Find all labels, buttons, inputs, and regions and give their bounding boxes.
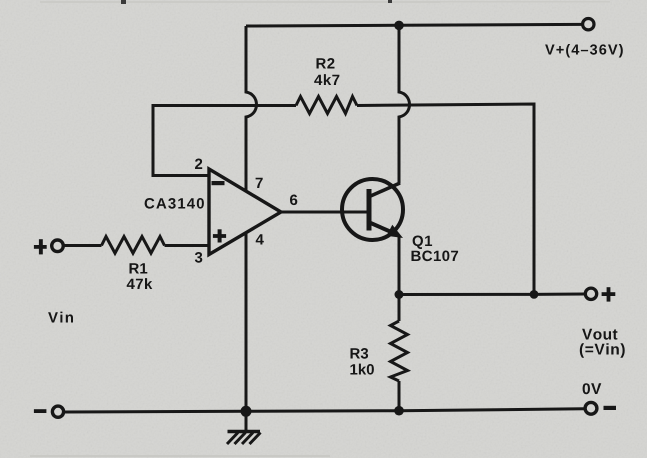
wire R3 down to 0V rail (398, 381, 401, 411)
junction dot R3 / 0V rail (394, 406, 404, 416)
junction dot emitter / output / R3 (395, 290, 404, 299)
scan artifact faint top streak (40, 1, 440, 3)
terminal 0V left (52, 406, 63, 417)
pin 6 label (290, 195, 297, 206)
scan artifact tick top left (121, 0, 126, 4)
wire output node down to R3 (398, 295, 401, 322)
wire emitter down to output node (398, 236, 401, 295)
terminal Vout (585, 288, 596, 299)
wire input terminal to R1 (65, 244, 102, 247)
junction dot ground node (241, 406, 252, 417)
label R2 (317, 58, 335, 69)
Vout terminal plus symbol (602, 287, 616, 301)
transistor Q1 circle (342, 179, 403, 240)
wire output node to Vout terminal (399, 293, 585, 297)
terminal V+ (583, 19, 594, 30)
label Vin (48, 312, 73, 323)
wire collector riser (hops over feedback wire) (399, 25, 410, 183)
pin 7 label (256, 178, 263, 188)
wire op-amp output pin 6 to base of Q1 (281, 211, 367, 214)
transistor Q1 collector stroke (370, 183, 401, 197)
label BC107 (412, 251, 459, 262)
label R1 (130, 263, 148, 273)
wire R2 right to output node (357, 104, 534, 294)
wire op-amp pin 4 down to 0V rail (245, 233, 248, 412)
label R3 (351, 348, 369, 359)
scan artifact tick top middle (388, 0, 392, 3)
label V+(4-36V) (545, 44, 623, 58)
op-amp non-inverting input plus symbol (213, 229, 226, 242)
op-amp U1 CA3140 triangle (209, 169, 281, 255)
wire top V+ rail (246, 24, 582, 26)
resistor R2 (296, 97, 357, 114)
label Vout (582, 329, 617, 340)
label 0V (583, 383, 602, 394)
right terminal minus symbol (604, 406, 617, 410)
transistor Q1 emitter stroke with arrow (370, 223, 398, 235)
pin 3 label (195, 252, 203, 263)
label (=Vin) (580, 343, 625, 357)
pin 2 label (195, 159, 202, 170)
terminal 0V right (585, 402, 597, 414)
label Q1 (413, 236, 433, 250)
input terminal plus symbol (34, 239, 47, 254)
wire bottom 0V rail (65, 409, 584, 412)
resistor R3 (391, 321, 408, 381)
label 47k (127, 278, 153, 289)
label 1k0 (350, 364, 374, 375)
ground symbol (227, 411, 261, 444)
wire V+ rail down to op-amp pin 7 (hops over feedback wire) (246, 26, 257, 191)
wire feedback: pin 2 up and right to R2 (153, 106, 296, 176)
op-amp inverting input minus symbol (212, 181, 225, 185)
label 4k7 (314, 74, 339, 85)
junction dot top rail / collector riser (394, 21, 404, 31)
label CA3140 (145, 198, 204, 209)
pin 4 label (256, 234, 264, 244)
resistor R1 (102, 237, 165, 254)
transistor Q1 base bar (367, 189, 372, 231)
terminal input (52, 240, 64, 252)
left terminal minus symbol (34, 409, 47, 413)
junction dot feedback / output (530, 290, 539, 299)
wire R1 to pin 3 (165, 244, 210, 247)
scan artifact faint bottom streak (30, 455, 330, 457)
